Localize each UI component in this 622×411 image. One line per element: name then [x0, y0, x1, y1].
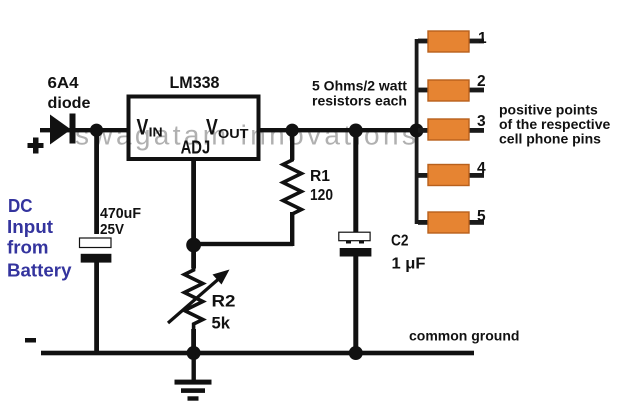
junction node C2-ground — [349, 346, 363, 360]
svg-text:IN: IN — [149, 125, 163, 140]
label R1 120 — [310, 168, 333, 204]
output resistor 2 — [418, 80, 484, 101]
output resistor 1 — [418, 31, 484, 52]
capacitor C1 470uF 25V — [80, 238, 112, 263]
svg-text:Input: Input — [7, 216, 53, 237]
svg-text:5: 5 — [477, 208, 486, 225]
svg-text:resistors each: resistors each — [312, 93, 407, 109]
output resistor 5 — [418, 212, 484, 233]
junction node ADJ-R1 — [186, 238, 201, 253]
potentiometer R2 arrow — [168, 270, 230, 324]
svg-text:from: from — [7, 237, 49, 258]
svg-text:4: 4 — [477, 160, 486, 177]
capacitor C2 plates — [339, 232, 372, 256]
label positive points of the respective cell phone pins — [499, 102, 610, 147]
svg-text:5k: 5k — [212, 315, 231, 333]
wire C2 branch down — [353, 130, 358, 233]
wire input branch down to C1 — [94, 130, 99, 234]
pin label VIN — [137, 115, 163, 140]
svg-text:2: 2 — [477, 73, 486, 90]
svg-text:25V: 25V — [100, 221, 124, 238]
wire ADJ pin down — [191, 159, 196, 269]
wire resistor bus vertical — [415, 39, 419, 224]
wire LM338 VOUT pin to resistor bus — [259, 128, 419, 132]
svg-text:R2: R2 — [212, 293, 236, 311]
svg-text:470uF: 470uF — [100, 205, 141, 222]
svg-text:1 μF: 1 μF — [392, 256, 426, 273]
wire C2 bottom to ground rail — [353, 256, 358, 354]
junction node bus — [410, 124, 424, 138]
svg-text:1: 1 — [478, 30, 487, 47]
svg-text:V: V — [137, 115, 149, 140]
label R2 5k — [212, 293, 236, 333]
wire diode to LM338 VIN pin — [40, 128, 129, 132]
junction node R1 top — [286, 124, 299, 137]
wire R2 bottom to ground rail — [191, 329, 196, 353]
ground symbol — [175, 353, 212, 401]
wire ground rail (common ground) — [41, 351, 474, 356]
wire R1 bottom down — [290, 212, 294, 246]
svg-text:Battery: Battery — [7, 260, 72, 281]
output resistor 3 — [418, 119, 484, 140]
svg-text:LM338: LM338 — [170, 73, 220, 92]
svg-text:5 Ohms/2 watt: 5 Ohms/2 watt — [312, 78, 407, 94]
label 5 Ohms/2 watt resistors each — [312, 78, 407, 109]
svg-text:V: V — [206, 115, 218, 140]
svg-text:diode: diode — [48, 95, 91, 112]
label 6A4 diode — [48, 75, 91, 112]
output resistor 4 — [418, 165, 484, 186]
svg-text:6A4: 6A4 — [48, 75, 79, 92]
wire R1 bottom to ADJ node — [193, 242, 293, 246]
junction node C2 top — [349, 124, 363, 138]
svg-text:R1: R1 — [310, 168, 330, 185]
junction node diode-C1 — [90, 124, 103, 137]
resistor R1 120 zigzag — [283, 158, 301, 214]
svg-text:C2: C2 — [391, 233, 409, 250]
label 470uF 25V — [100, 205, 141, 238]
plus terminal symbol — [28, 138, 44, 154]
wire R1 top branch — [290, 130, 294, 160]
wire C1 bottom to ground rail — [94, 263, 99, 355]
label C2 1uF — [391, 233, 426, 273]
regulator U1 LM338 box — [129, 97, 259, 160]
svg-text:common ground: common ground — [409, 328, 519, 344]
svg-text:DC: DC — [8, 195, 33, 216]
potentiometer R2 5k zigzag — [184, 268, 202, 330]
pin label VOUT — [206, 115, 249, 142]
svg-text:ADJ: ADJ — [181, 138, 211, 158]
diode D1 6A4 — [50, 114, 76, 145]
svg-text:120: 120 — [310, 187, 333, 204]
svg-text:3: 3 — [477, 113, 486, 130]
label DC Input from Battery — [7, 195, 72, 281]
minus terminal symbol — [25, 338, 36, 343]
svg-text:OUT: OUT — [218, 126, 249, 141]
svg-text:cell phone pins: cell phone pins — [499, 131, 601, 147]
junction node R2-ground — [187, 346, 201, 360]
